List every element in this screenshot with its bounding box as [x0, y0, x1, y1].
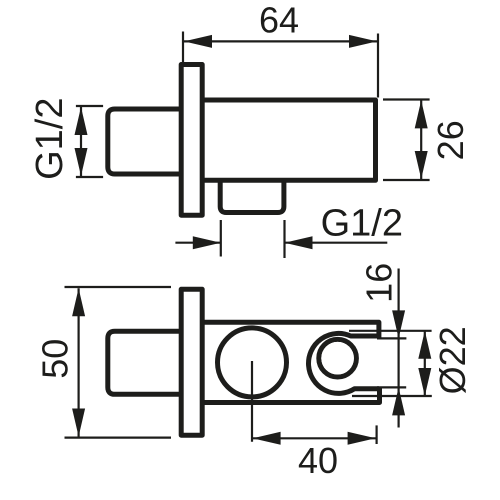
svg-text:G1/2: G1/2: [321, 203, 403, 245]
dimension 40: extension line: [376, 425, 378, 444]
svg-text:26: 26: [430, 120, 471, 160]
dimension 50: dimension line with arrows: [72, 288, 85, 436]
dimension G1/2 bottom: extension lines: [221, 220, 285, 258]
wall flange (top view): [181, 65, 202, 216]
dimension 16: dimension line with outside arrows: [392, 269, 405, 428]
svg-text:16: 16: [359, 263, 400, 303]
centerline of outlet circle: [251, 361, 253, 442]
dimension G1/2 left: extension lines: [76, 106, 103, 177]
dimension 16: extension lines: [377, 338, 406, 387]
main body (front view): [200, 322, 380, 402]
dimension 16: label: [359, 263, 400, 303]
dimension G1/2 bottom: dimension line with outside arrows: [175, 236, 387, 249]
dimension D22: dimension line with arrows: [418, 331, 431, 396]
dimension 26: extension lines: [383, 100, 430, 181]
svg-text:G1/2: G1/2: [29, 98, 71, 180]
dimension G1/2 left: dimension line with arrows: [75, 107, 88, 176]
dimension G1/2 left: label: [29, 98, 71, 180]
shower holder clamp (front view): [309, 333, 379, 393]
svg-text:Ø22: Ø22: [432, 326, 473, 394]
dimension 64: extension lines: [183, 32, 378, 98]
dimension 40: label: [298, 440, 338, 481]
dimension 40: dimension line with arrows: [253, 432, 376, 445]
svg-text:40: 40: [298, 440, 338, 481]
wall flange (front view): [181, 289, 202, 435]
dimension 26: label: [430, 120, 471, 160]
outlet circle (front view): [218, 328, 287, 397]
dimension D22: label: [432, 326, 473, 394]
dimension G1/2 bottom: label: [321, 203, 403, 245]
G1/2 inlet connector (top view): [108, 109, 181, 174]
dimension 50: extension lines: [65, 287, 172, 438]
svg-text:64: 64: [259, 0, 299, 40]
G1/2 inlet connector (front view): [108, 331, 181, 394]
svg-text:50: 50: [35, 339, 76, 379]
dimension 50: label: [35, 339, 76, 379]
main body (top view): [200, 100, 376, 180]
dimension 64: label: [259, 0, 299, 40]
dimension 26: dimension line with arrows: [415, 100, 428, 179]
dimension 64: dimension line with arrows: [184, 35, 377, 48]
outlet stub (top view): [220, 178, 284, 213]
dimension D22: extension lines: [349, 331, 432, 396]
